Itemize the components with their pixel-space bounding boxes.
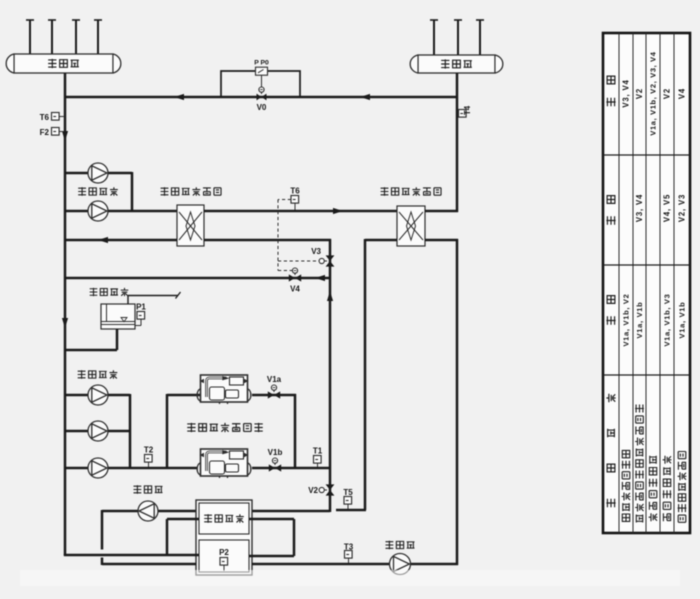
- pump chilled-water 1: [88, 163, 108, 183]
- svg-text:V2, V3: V2, V3: [678, 194, 687, 222]
- wire V2 bottom to ice tank: [252, 510, 330, 513]
- svg-text:V1a, V1b, V3: V1a, V1b, V3: [663, 293, 672, 346]
- expansion tank (膨胀水箱): [101, 292, 181, 329]
- ice coil section 蓄冰盘管: [199, 503, 249, 534]
- wire line A bottom of glycol loop: [64, 554, 199, 556]
- water distributor vessel FSQ (分水器): [410, 55, 503, 73]
- ice tank lower section with P2: [199, 540, 249, 572]
- collector risers with end ticks: [26, 20, 102, 54]
- wire line B right to riser: [252, 563, 458, 566]
- valve V1b: [268, 448, 283, 472]
- valve V1a: [267, 375, 282, 399]
- svg-text:V3, V4: V3, V4: [635, 194, 644, 222]
- wire line B left: [102, 563, 196, 566]
- valve V3 with actuator: [311, 247, 334, 267]
- sensor T5: [343, 488, 353, 509]
- svg-text:V1a, V1b: V1a, V1b: [635, 302, 644, 339]
- svg-text:F2: F2: [40, 128, 50, 137]
- svg-text:T1: T1: [313, 447, 323, 456]
- svg-text:V1a, V1b, V2, V3, V4: V1a, V1b, V2, V3, V4: [649, 51, 658, 135]
- wire pump loop right side: [131, 172, 134, 212]
- svg-text:V1a: V1a: [267, 375, 282, 384]
- wire glycol pump branch 2: [64, 430, 130, 433]
- svg-text:V2: V2: [635, 88, 644, 99]
- flow arrow down on left vertical: [62, 131, 68, 141]
- wire bypass loop: [221, 71, 300, 97]
- valve V4 with actuator: [289, 268, 301, 294]
- wire right loop vertical x365: [364, 239, 367, 510]
- svg-text:T4: T4: [463, 105, 472, 115]
- heat-exchanger HX1 main cooling plate (主机供冷板换): [177, 205, 204, 246]
- wire HX2 lower-left stub: [365, 239, 397, 242]
- label 鼓气泵: [133, 485, 162, 494]
- svg-text:V4: V4: [290, 285, 300, 294]
- sensor T3: [344, 543, 354, 564]
- control dashed line T6 to V3 V4: [278, 200, 318, 271]
- wire glycol pump branch 1: [64, 394, 130, 397]
- table header 调节: [606, 196, 615, 225]
- wire HX1 bottom return to left: [64, 237, 177, 243]
- table row1 双工况主机制冰: [622, 450, 631, 521]
- svg-text:V1a, V1b, V2: V1a, V1b, V2: [622, 293, 631, 346]
- wire main top header pipe: [64, 94, 457, 100]
- pressure instrument P P0: [254, 60, 269, 89]
- valve V0 with actuator: [257, 87, 267, 112]
- wire pump loop bottom branch to HX1: [64, 210, 178, 213]
- sensor F2 on return: [40, 128, 64, 138]
- table header 运行工况: [606, 394, 615, 507]
- chiller unit upper (dual-duty): [197, 375, 251, 404]
- wire pump loop top branch: [64, 172, 132, 175]
- label 主机供冷板换: [161, 187, 221, 196]
- svg-text:V1b: V1b: [268, 448, 283, 457]
- wire riser to upper chiller: [167, 394, 201, 469]
- svg-text:V4, V5: V4, V5: [663, 194, 672, 222]
- svg-text:V2: V2: [663, 88, 672, 99]
- water collector vessel JSQ (集水器): [6, 54, 121, 73]
- svg-text:T6: T6: [40, 113, 50, 122]
- wire coil right loop: [249, 519, 294, 556]
- wire tank drain to left vertical: [64, 329, 117, 350]
- wire glycol manifold right side: [129, 394, 132, 469]
- svg-text:P P0: P P0: [254, 60, 269, 67]
- label 乙二醇泵: [78, 370, 118, 379]
- faint light strip: [20, 570, 680, 586]
- svg-text:V3: V3: [311, 247, 321, 256]
- table frame and grid: [603, 33, 690, 533]
- svg-text:V0: V0: [257, 103, 267, 112]
- wire air pump line: [102, 510, 196, 513]
- wire distributor riser down to HX2: [425, 73, 458, 212]
- chiller unit lower (dual-duty): [197, 449, 251, 478]
- label 双工况冷水机组: [187, 423, 263, 432]
- wire T5 stub: [336, 509, 366, 512]
- wire HX2 lower-right to riser: [425, 239, 458, 565]
- sensor T1: [313, 447, 323, 468]
- label 冷冻水泵: [78, 187, 118, 196]
- svg-text:V4: V4: [678, 88, 687, 99]
- flow arrow down left vertical 2: [62, 318, 68, 328]
- table row5 主机制冰兼供冷: [678, 452, 687, 523]
- wire upper chiller outlet: [252, 394, 296, 469]
- wire lower chiller outlet: [252, 467, 331, 470]
- svg-text:T5: T5: [343, 488, 353, 497]
- table row2 主机与蓄冰装置联合供冷: [635, 405, 644, 523]
- wire V4 line: [64, 275, 330, 281]
- svg-text:P1: P1: [136, 303, 146, 312]
- svg-text:T2: T2: [144, 446, 154, 455]
- label 放冷泵: [385, 541, 414, 550]
- label 膨胀水箱: [90, 288, 129, 296]
- svg-text:T6: T6: [290, 187, 300, 196]
- pump glycol 3: [88, 458, 108, 478]
- svg-text:V3, V4: V3, V4: [622, 79, 631, 107]
- table header 开启: [606, 296, 615, 325]
- wire HX1 bottom to V3 corner: [204, 239, 331, 242]
- table header 关闭: [606, 76, 615, 106]
- ice storage tank outer shell: [196, 500, 252, 575]
- wire lineA riser to coil: [167, 519, 199, 556]
- pump glycol 2: [88, 421, 108, 441]
- sensor T2: [144, 446, 154, 468]
- svg-text:P2: P2: [219, 548, 229, 557]
- valve V2 with actuator: [308, 484, 334, 495]
- sensor T4 on riser: [459, 105, 473, 117]
- wire glycol pump branch 3: [64, 467, 130, 470]
- pump air agitation (鼓气泵): [138, 501, 158, 521]
- pump glycol 1: [88, 385, 108, 405]
- wire HX1 to HX2 top run: [204, 208, 397, 214]
- sensor T6 control (dashed): [290, 187, 300, 211]
- distributor risers with end ticks: [430, 20, 484, 55]
- sensor T6 on return: [40, 113, 64, 123]
- wire air pump drop: [101, 510, 104, 565]
- pump chilled-water 2: [88, 201, 108, 221]
- wire main left vertical: [64, 73, 67, 555]
- wire vertical x330 with V3: [327, 239, 333, 512]
- heat-exchanger HX2 ice-melt plate (融冰供冷板换): [397, 206, 425, 246]
- label 融冰供冷板换: [381, 187, 441, 196]
- pump discharge (放冷泵): [390, 554, 411, 575]
- table row4 主机单独供冷: [663, 456, 672, 521]
- table row3 融冰单独供冷: [649, 456, 658, 521]
- wire manifold to lower chiller: [130, 467, 197, 470]
- sensor P1 on tank: [135, 303, 146, 326]
- svg-text:V2: V2: [308, 486, 318, 495]
- svg-text:V1a, V1b: V1a, V1b: [678, 302, 687, 339]
